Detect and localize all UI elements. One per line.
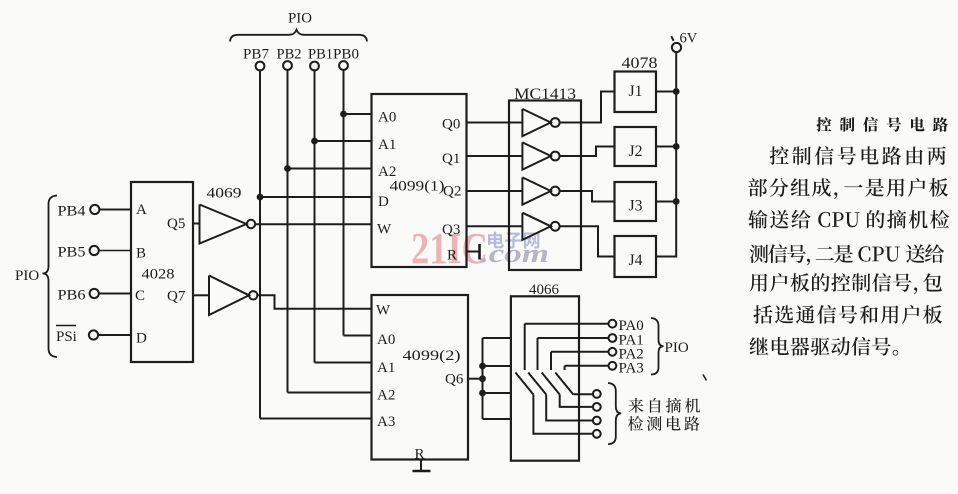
svg-text:PB6: PB6	[58, 288, 87, 304]
svg-text:PB0: PB0	[333, 47, 359, 63]
svg-text:A1: A1	[377, 360, 395, 376]
svg-text:PIO: PIO	[288, 11, 312, 27]
svg-text:C: C	[135, 288, 145, 304]
svg-text:J4: J4	[629, 252, 643, 269]
svg-text:A0: A0	[378, 110, 396, 126]
svg-text:D: D	[378, 194, 389, 210]
svg-text:A2: A2	[377, 388, 395, 404]
svg-text:4099(1): 4099(1)	[390, 179, 445, 195]
svg-text:PB4: PB4	[58, 204, 87, 220]
svg-text:J1: J1	[629, 83, 643, 100]
svg-text:Q7: Q7	[167, 289, 186, 305]
svg-text:B: B	[136, 246, 146, 262]
svg-text:PB1: PB1	[308, 47, 333, 63]
svg-text:4099(2): 4099(2)	[403, 348, 461, 364]
svg-text:Q0: Q0	[442, 117, 460, 133]
svg-text:A1: A1	[378, 137, 396, 153]
svg-text:R: R	[447, 248, 457, 264]
svg-text:Q3: Q3	[442, 222, 460, 238]
svg-text:A0: A0	[377, 332, 395, 348]
svg-text:PB7: PB7	[243, 47, 269, 63]
svg-text:R: R	[415, 447, 425, 463]
svg-text:A3: A3	[377, 414, 395, 430]
svg-text:W: W	[377, 222, 392, 238]
svg-text:.com: .com	[480, 239, 549, 268]
svg-text:Q1: Q1	[442, 151, 460, 167]
svg-text:PIO: PIO	[15, 268, 39, 284]
svg-text:PIO: PIO	[665, 340, 689, 356]
svg-text:J3: J3	[629, 198, 643, 215]
svg-text:Q5: Q5	[167, 216, 185, 232]
svg-text:4028: 4028	[142, 267, 175, 283]
svg-text:PB5: PB5	[58, 245, 86, 261]
svg-text:4078: 4078	[622, 55, 658, 72]
svg-text:Q2: Q2	[443, 184, 461, 200]
svg-text:4069: 4069	[207, 186, 242, 202]
svg-text:D: D	[136, 331, 147, 347]
svg-text:PA3: PA3	[619, 361, 644, 377]
svg-text:W: W	[376, 303, 391, 319]
svg-text:PB2: PB2	[277, 47, 302, 63]
svg-text:J2: J2	[629, 143, 643, 160]
svg-text:A: A	[136, 202, 147, 218]
svg-text:6V: 6V	[680, 31, 698, 47]
svg-text:PSi: PSi	[56, 329, 77, 345]
svg-text:Q6: Q6	[445, 372, 464, 388]
